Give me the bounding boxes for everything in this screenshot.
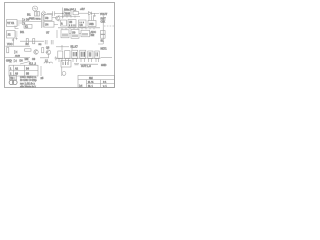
IC U5 (68, 20, 76, 28)
relay K2 (58, 51, 63, 58)
wire (101, 57, 113, 59)
switch S1 (101, 31, 106, 35)
IC U6B (88, 21, 96, 27)
wire (98, 13, 103, 44)
terminal block TB1 (9, 65, 38, 76)
bus (60, 16, 80, 18)
transistor Q1 (56, 16, 60, 20)
vertical feed wires (62, 45, 72, 50)
inductor L1 (73, 11, 78, 14)
wire (40, 54, 49, 57)
IC U11 (61, 60, 71, 67)
svg-text:S1: S1 (101, 39, 105, 43)
wire (52, 18, 58, 25)
transformer T2 (9, 75, 16, 79)
svg-text:K2..K7: K2..K7 (71, 46, 79, 49)
svg-text:+5V: +5V (80, 7, 85, 11)
connector J1 (7, 20, 18, 27)
relay K4 (72, 50, 78, 58)
wire (22, 21, 42, 23)
wire (20, 40, 44, 42)
diode D2 (89, 12, 92, 15)
svg-text:R2: R2 (39, 44, 43, 46)
diode D6 (14, 59, 16, 62)
connector J2 (7, 31, 16, 39)
IC U6 (79, 20, 87, 27)
svg-text:1: 1 (10, 67, 12, 70)
transistor Q3 (46, 50, 50, 54)
capacitor C2 (93, 13, 95, 16)
diode D4 (23, 22, 25, 25)
IC U9 (71, 29, 79, 38)
svg-text:U6B: U6B (89, 23, 94, 26)
relay K6 (88, 51, 93, 58)
svg-text:VT X1: VT X1 (7, 22, 15, 25)
transformer T1 (35, 12, 40, 17)
svg-text:Bl. 1: Bl. 1 (88, 85, 93, 88)
bracket (15, 26, 19, 29)
relay K7 (95, 51, 99, 58)
transistor Q2 (34, 50, 38, 54)
svg-text:IN1: IN1 (20, 30, 25, 34)
svg-text:±5: ±5 (41, 76, 44, 80)
svg-text:SM: SM (89, 77, 93, 80)
svg-text:Lst: Lst (79, 84, 83, 87)
svg-text:D6: D6 (20, 59, 24, 62)
inductor L2 (44, 62, 52, 63)
svg-text:B1: B1 (27, 13, 31, 17)
diode D3 (23, 18, 25, 21)
svg-text:7805: 7805 (65, 12, 71, 15)
svg-text:PWR: PWR (29, 17, 35, 20)
IC U8 (61, 30, 69, 38)
capacitor C4 (51, 40, 53, 44)
svg-text:&: & (61, 23, 63, 26)
arrow marks (10, 61, 12, 64)
IC U3 (44, 15, 52, 21)
wire (69, 33, 91, 35)
relay K5 (80, 50, 86, 58)
wire (41, 13, 43, 28)
title block (78, 75, 115, 87)
wire (62, 8, 64, 19)
sheet frame (decorative) (5, 3, 115, 88)
svg-text:R=10k C=22p: R=10k C=22p (20, 78, 37, 82)
wire (78, 12, 88, 14)
relay K3 (65, 51, 70, 59)
resistor R1 (26, 39, 28, 44)
svg-text:C9: C9 (32, 58, 36, 61)
wire (56, 30, 58, 38)
wire (55, 12, 64, 14)
svg-text:IN2: IN2 (91, 34, 95, 37)
regulator U2 (64, 11, 71, 16)
svg-text:A2: A2 (15, 67, 19, 70)
wire (20, 61, 30, 64)
svg-text:10k: 10k (25, 58, 30, 61)
svg-text:U4: U4 (45, 23, 49, 27)
motor M1 (62, 72, 66, 76)
svg-text:B4: B4 (26, 67, 30, 70)
svg-text:GND: GND (101, 64, 107, 67)
resistor R2 (33, 39, 35, 44)
wire (61, 67, 63, 76)
capacitor C1 (53, 11, 55, 16)
svg-text:Q3: Q3 (46, 47, 50, 50)
svg-text:U3: U3 (45, 16, 49, 20)
wire (56, 46, 69, 48)
svg-text:9L %: 9L % (88, 81, 94, 84)
capacitor C6 dashes (74, 63, 79, 64)
svg-text:OSC 4MHz u.: OSC 4MHz u. (20, 75, 37, 79)
IC U10 (81, 30, 90, 37)
svg-text:4148: 4148 (15, 56, 21, 58)
svg-text:U5: U5 (69, 21, 73, 24)
svg-text:GND: GND (6, 58, 12, 62)
bus (58, 28, 100, 29)
node n1 (62, 13, 63, 14)
wire (5, 57, 30, 59)
wire (40, 66, 42, 76)
svg-text:J2: J2 (7, 33, 10, 37)
dashed wire (104, 25, 114, 27)
label OUT row (80, 63, 98, 65)
pin stubs (59, 59, 99, 62)
svg-text:VOUT: VOUT (100, 12, 108, 16)
wire (42, 15, 44, 28)
generator B1 (33, 6, 38, 11)
wire (47, 12, 52, 14)
resistor R5 (42, 48, 44, 53)
svg-text:OUT 1..6: OUT 1..6 (81, 65, 91, 68)
diode D5 (15, 51, 18, 54)
capacitor C3 (45, 40, 47, 44)
svg-text:U7: U7 (46, 31, 50, 35)
svg-text:U9: U9 (72, 30, 76, 34)
bus (56, 58, 101, 60)
wire (13, 38, 15, 46)
relay K1 (24, 24, 32, 28)
svg-text:50Hz: 50Hz (36, 19, 41, 21)
svg-text:alle Werte in k: alle Werte in k (20, 86, 37, 89)
IC U4 (44, 22, 54, 28)
node plus marks (12, 37, 18, 41)
resistor R3 (7, 48, 9, 53)
resistor R4 (25, 49, 31, 51)
bridge rectifier D1 (41, 11, 46, 16)
wire (92, 12, 100, 14)
ground (54, 56, 57, 60)
svg-text:NET1: NET1 (101, 47, 108, 50)
wire (6, 45, 31, 47)
gate U5A (61, 20, 67, 26)
svg-text:VCC: VCC (7, 42, 13, 46)
